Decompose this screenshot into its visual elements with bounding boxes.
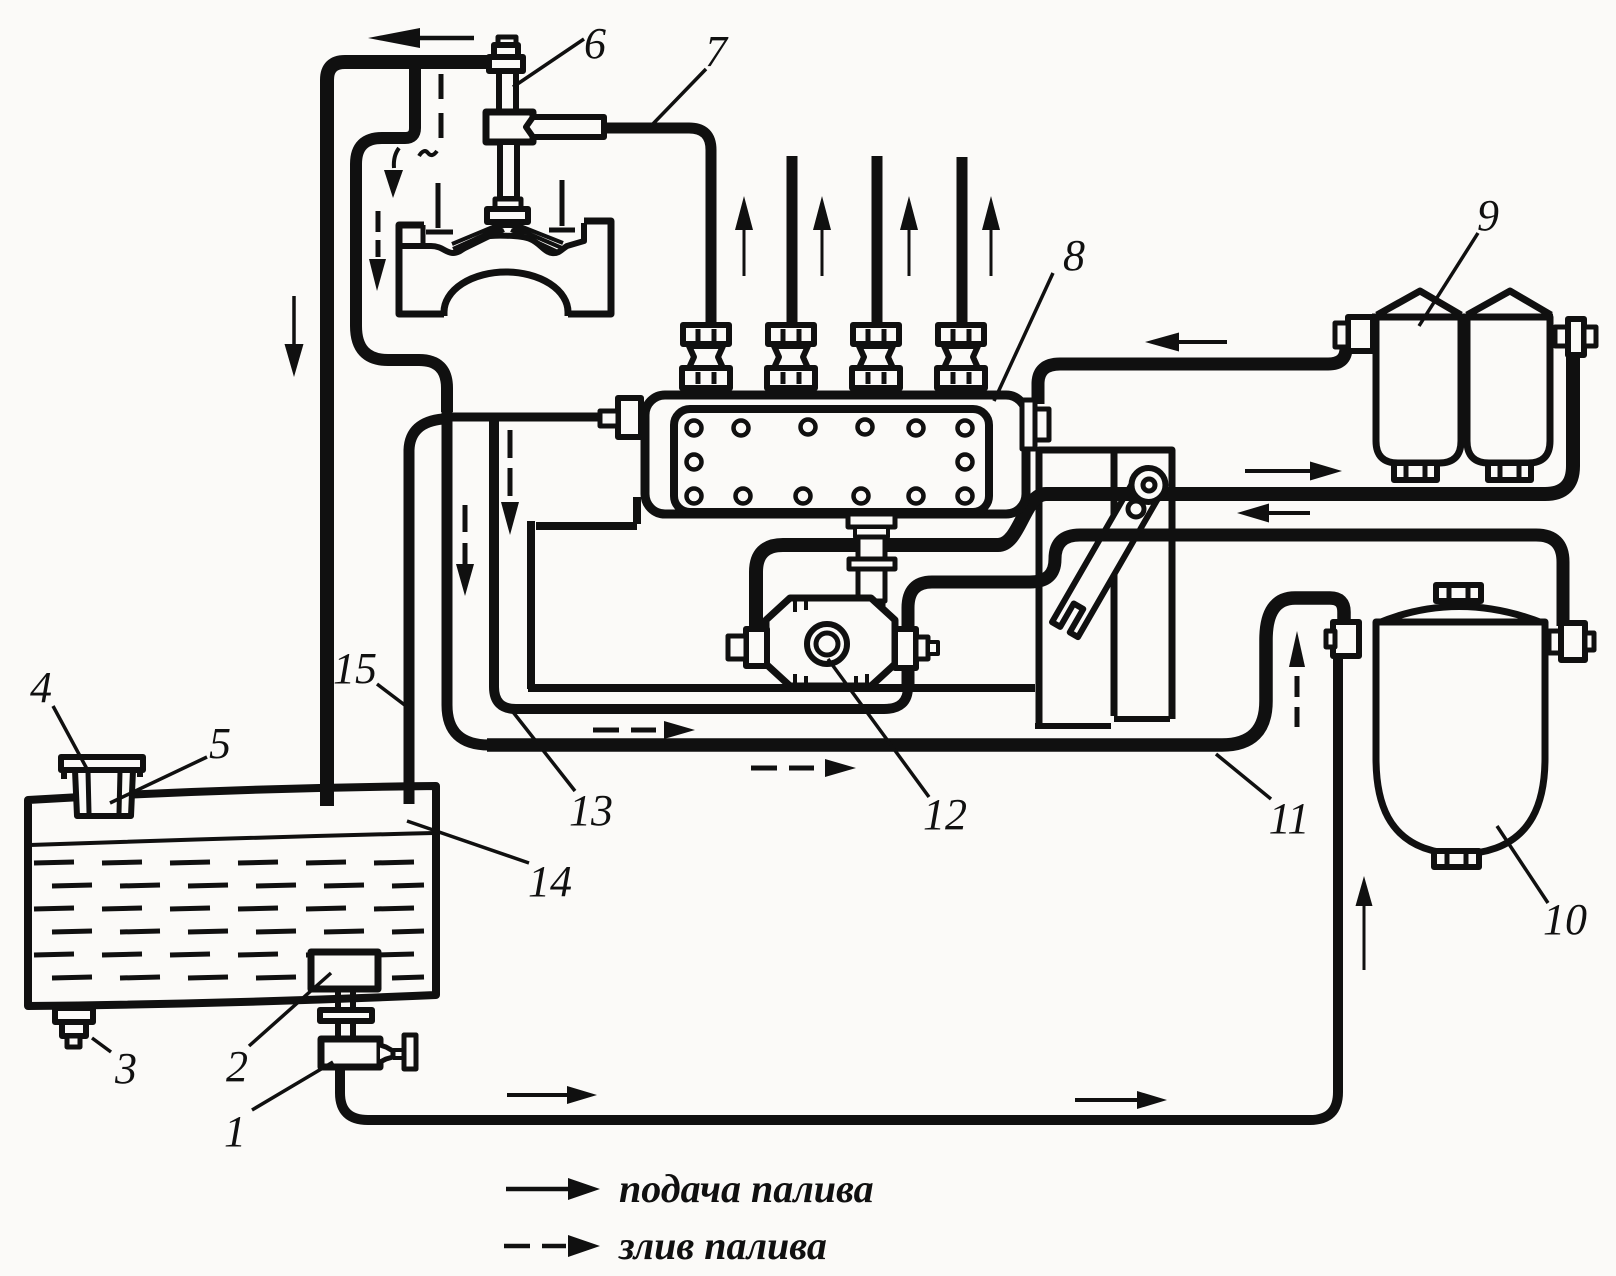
pump cover bolts	[687, 421, 702, 436]
right arrows on supply pipe	[507, 1093, 567, 1097]
coarse filter right fitting	[1549, 631, 1561, 653]
svg-text:7: 7	[705, 27, 729, 76]
legend drain arrow	[504, 1244, 566, 1249]
fuel tap (1)	[321, 1039, 380, 1067]
left arrow above pipe A	[1179, 340, 1227, 344]
tap flange	[320, 1010, 372, 1021]
drain pipe from tee down (15 upper)	[356, 66, 447, 412]
connector stack pump 8 to priming pump	[848, 514, 895, 527]
filler neck tube (5)	[75, 770, 133, 816]
fuel level line	[30, 833, 434, 845]
filter nubs	[1394, 463, 1437, 480]
hand lever (wrench)	[1052, 478, 1161, 638]
fuel pickup (2)	[311, 952, 378, 989]
pump left fitting	[618, 398, 641, 437]
arrow top-left (leak-off flow)	[420, 36, 474, 41]
svg-text:15: 15	[333, 644, 377, 693]
solid up arrow supply to filter	[1363, 906, 1366, 970]
engine governor housing outline	[528, 497, 1035, 689]
svg-text:4: 4	[30, 663, 52, 712]
cylinder and piston	[399, 221, 611, 314]
leader lines	[252, 1062, 333, 1110]
suction line coarse filter to transfer pump	[908, 535, 1563, 690]
pump right fitting	[1022, 400, 1035, 449]
svg-text:11: 11	[1269, 794, 1310, 843]
drain plug (3)	[55, 1008, 93, 1022]
svg-text:5: 5	[209, 719, 231, 768]
dashed right arrow on gallery	[593, 728, 656, 733]
delivery line transfer pump to fine filters 9	[756, 354, 1573, 630]
lever pivot	[1132, 468, 1166, 502]
drain passage dashes	[439, 74, 444, 138]
svg-text:12: 12	[923, 790, 967, 839]
drain pipe to tank (15)	[409, 419, 443, 804]
right arrow above pipe B	[1245, 469, 1310, 473]
svg-text:злив палива: злив палива	[618, 1223, 827, 1268]
svg-text:14: 14	[528, 857, 572, 906]
drain line down to return gallery	[447, 398, 489, 745]
priming pump right fitting	[895, 629, 916, 668]
filters right fitting	[1555, 327, 1568, 346]
coarse filter bottom nub	[1434, 851, 1479, 867]
injector lines 2-4	[792, 156, 962, 325]
priming pump (12)	[766, 598, 895, 686]
filters left fitting	[1348, 317, 1373, 351]
svg-text:2: 2	[226, 1042, 248, 1091]
priming pump left fitting	[746, 629, 767, 666]
dashed up arrow to coarse filter	[1295, 676, 1300, 727]
dashed drain arrow at injector	[394, 148, 399, 168]
dashed down arrow x465	[463, 505, 468, 570]
svg-text:13: 13	[569, 786, 613, 835]
drain pipe injector to tank	[327, 62, 489, 806]
pump overflow line via gallery	[494, 417, 908, 709]
intake valve symbol	[426, 183, 453, 232]
filler cap (4)	[61, 757, 143, 770]
injection pump (8) body	[645, 395, 1026, 514]
dashed drain arrow left channel	[376, 211, 381, 257]
engine bracket	[1039, 450, 1172, 723]
arrows above injector lines	[743, 230, 746, 276]
svg-text:подача палива: подача палива	[619, 1166, 874, 1211]
injector (6)	[498, 37, 516, 46]
svg-text:8: 8	[1063, 231, 1085, 280]
left arrow above pipe C	[1269, 511, 1310, 515]
svg-text:10: 10	[1543, 895, 1587, 944]
svg-text:3: 3	[114, 1044, 137, 1093]
svg-text:1: 1	[224, 1107, 246, 1156]
legend supply arrow	[506, 1187, 572, 1192]
dashed right arrow on drain line	[751, 766, 814, 771]
fuel tank body (14)	[28, 786, 436, 1006]
supply pipe from tap to coarse filter 10	[340, 658, 1338, 1120]
supply line fine filters to injection pump 8	[1038, 340, 1346, 404]
dashed down arrow x510	[508, 430, 513, 496]
fuel hatching dashes	[34, 862, 414, 863]
injector outlet barrel to pipe 7	[526, 117, 604, 137]
liquid squiggle	[419, 151, 437, 156]
coarse filter left fitting	[1333, 622, 1359, 656]
svg-text:6: 6	[584, 19, 606, 68]
exhaust valve symbol	[549, 180, 575, 230]
delivery valve fittings	[682, 325, 730, 388]
fine filters (9)	[1377, 291, 1551, 315]
piston crown wavy line	[401, 223, 584, 253]
drain pipe to pump head (13 horizontal)	[443, 413, 600, 422]
solid down arrow at tank pipe	[292, 296, 296, 344]
spray fans	[452, 224, 504, 253]
coarse filter top nub	[1436, 585, 1481, 601]
drain return line (11) to coarse filter	[487, 598, 1344, 745]
high pressure pipe (7)	[606, 128, 711, 325]
coarse filter (10)	[1376, 607, 1545, 625]
svg-text:9: 9	[1477, 191, 1499, 240]
